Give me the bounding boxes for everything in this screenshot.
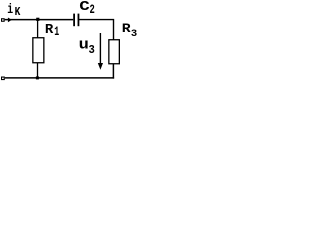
resistor R3 bbox=[109, 40, 120, 64]
wire R1 top lead bbox=[37, 20, 39, 38]
svg-text:i: i bbox=[7, 1, 13, 17]
capacitor C2 right plate bbox=[77, 14, 79, 27]
wire R3 bottom lead bbox=[112, 64, 114, 79]
svg-text:K: K bbox=[15, 6, 21, 19]
wire top-left segment bbox=[5, 19, 74, 21]
label C2 bbox=[79, 0, 90, 15]
svg-text:C: C bbox=[79, 0, 90, 15]
svg-text:3: 3 bbox=[131, 28, 137, 40]
label u_3 bbox=[79, 36, 89, 53]
resistor R1 bbox=[33, 38, 44, 63]
svg-text:3: 3 bbox=[89, 45, 96, 58]
label R3 bbox=[122, 22, 132, 37]
node A (top junction) bbox=[36, 18, 39, 21]
svg-text:1: 1 bbox=[54, 26, 59, 40]
svg-text:R: R bbox=[45, 22, 54, 38]
label i_K bbox=[7, 1, 13, 17]
svg-text:u: u bbox=[79, 36, 89, 53]
terminal (bottom-left) bbox=[2, 77, 5, 80]
voltage arrow u_3 bbox=[99, 33, 101, 65]
wire top-right segment with corner bbox=[78, 20, 113, 40]
node B (bottom junction) bbox=[36, 76, 39, 79]
svg-text:2: 2 bbox=[90, 4, 96, 18]
current arrow i_K bbox=[8, 18, 12, 23]
wire R1 bottom lead bbox=[37, 63, 39, 78]
capacitor C2 left plate bbox=[73, 14, 75, 27]
terminal (top-left) bbox=[2, 19, 5, 22]
svg-text:R: R bbox=[122, 22, 132, 37]
wire bottom segment bbox=[5, 77, 114, 79]
label R1 bbox=[45, 22, 54, 38]
